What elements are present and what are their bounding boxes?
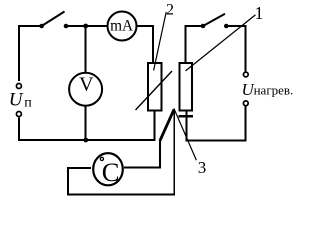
node junction bottom (voltmeter tap) bbox=[83, 138, 88, 143]
switch S1 contact dot right bbox=[64, 24, 69, 29]
svg-text:V: V bbox=[79, 74, 94, 96]
svg-text:п: п bbox=[24, 95, 32, 110]
wire resistor 1 top lead to switch bbox=[186, 26, 204, 62]
svg-text:U: U bbox=[9, 90, 24, 111]
terminal Up lower bbox=[16, 112, 21, 117]
svg-text:mA: mA bbox=[110, 17, 133, 34]
terminal Uheat lower bbox=[243, 101, 248, 106]
wire thermocouple right to thermometer bbox=[68, 168, 175, 195]
op voltmeter V bbox=[69, 73, 102, 106]
switch S2 contact dot right bbox=[224, 24, 229, 29]
resistor R1 (heater) body bbox=[179, 63, 192, 111]
wire right rail lower to resistor 1 bottom bbox=[187, 106, 246, 141]
node junction top (voltmeter tap) bbox=[83, 24, 88, 29]
label 3 leader line bbox=[175, 111, 197, 161]
wire voltmeter top lead bbox=[85, 26, 87, 73]
wire switch to milliammeter bbox=[66, 25, 108, 27]
wire voltmeter bottom lead bbox=[85, 106, 87, 140]
op thermometer C bbox=[93, 153, 123, 185]
label 2 leader line bbox=[154, 12, 167, 71]
wire milliammeter to resistor 2 top bbox=[137, 26, 154, 62]
wire switch S2 to right rail bbox=[226, 26, 245, 72]
svg-text:2: 2 bbox=[166, 2, 174, 19]
heater contact bar under R1 bbox=[178, 115, 193, 117]
wire bottom-left rail to resistor 2 bottom bbox=[19, 112, 154, 141]
terminal Uheat upper bbox=[243, 72, 248, 77]
label 1 leader line bbox=[186, 15, 256, 71]
svg-text:3: 3 bbox=[198, 158, 207, 177]
wire thermocouple left to thermometer bbox=[124, 140, 160, 168]
svg-text:C: C bbox=[102, 157, 120, 187]
wire top-left: left rail to switch contact bbox=[19, 26, 42, 81]
terminal Up upper bbox=[16, 84, 21, 89]
thermocouple left wire (thick) bbox=[160, 110, 174, 142]
switch S2 blade bbox=[203, 14, 225, 26]
resistor R2 (sample) body bbox=[148, 63, 162, 111]
svg-text:1: 1 bbox=[255, 3, 264, 23]
arrow through resistor R2 bbox=[136, 71, 173, 110]
thermocouple right wire (thin) bbox=[173, 109, 175, 195]
degree mark of thermometer bbox=[100, 157, 103, 160]
switch S1 contact dot left bbox=[39, 24, 44, 29]
switch S2 contact dot left bbox=[201, 24, 206, 29]
switch S1 blade bbox=[42, 12, 65, 27]
svg-text:нагрев.: нагрев. bbox=[254, 83, 294, 98]
op milliammeter mA bbox=[108, 12, 137, 41]
